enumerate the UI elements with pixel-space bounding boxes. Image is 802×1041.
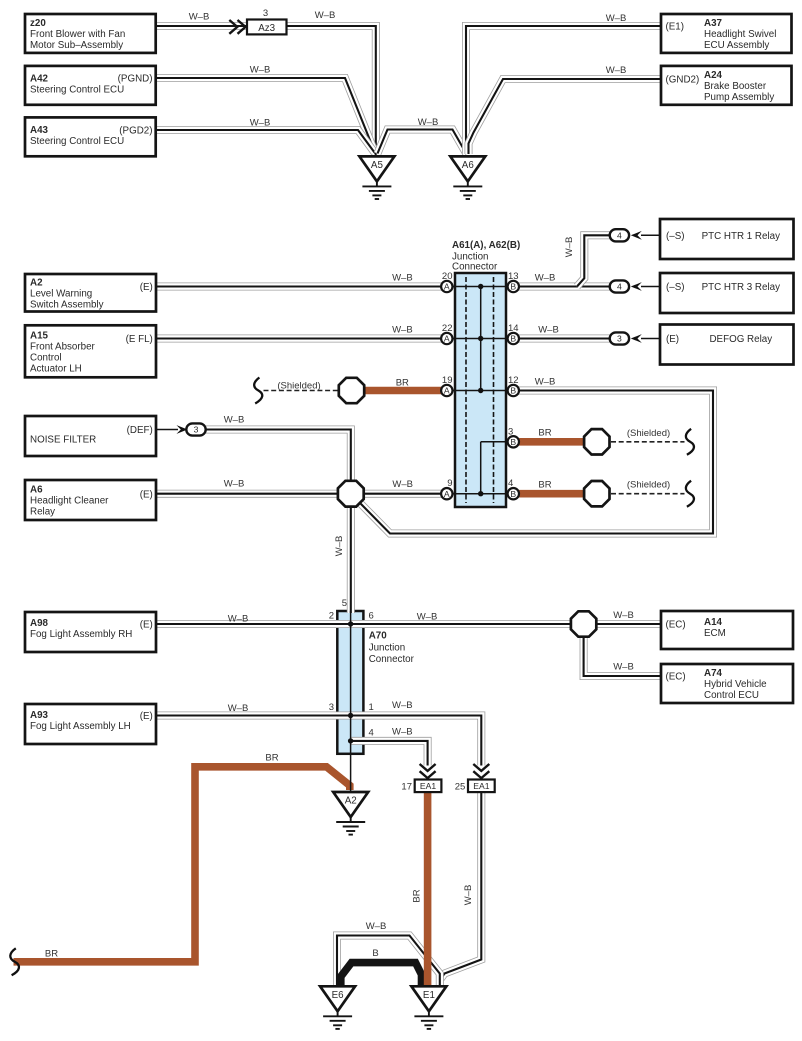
- relay PTC HTR 3: [660, 273, 794, 313]
- connector A43 Steering Control ECU: [25, 117, 156, 156]
- connector A24 Brake Booster Pump: [661, 66, 792, 105]
- A70 internal bus to ground A2: [348, 611, 353, 791]
- wire A5 to A6 link W-B: [378, 130, 467, 155]
- terminal A pin20: [441, 281, 452, 292]
- svg-text:W–B: W–B: [606, 65, 627, 76]
- svg-text:W–B: W–B: [228, 703, 249, 714]
- svg-text:(E1): (E1): [666, 22, 685, 33]
- svg-text:(GND2): (GND2): [666, 75, 700, 86]
- wire BR main wire bottom left: [14, 767, 350, 962]
- svg-text:A: A: [444, 334, 450, 344]
- wire shielded dashed line pin3: [611, 441, 685, 443]
- svg-text:(E): (E): [140, 282, 153, 293]
- label W-B A93 row: [228, 703, 249, 714]
- svg-text:3: 3: [194, 425, 199, 435]
- connector EA1 pin17: [415, 780, 442, 793]
- svg-text:W–B: W–B: [564, 237, 575, 258]
- connector A2 Level Warning Switch: [25, 274, 156, 312]
- svg-text:A: A: [444, 386, 450, 396]
- label W-B noise filter: [224, 415, 245, 426]
- wire A61 pin14 to DEFOG relay W-B: [519, 335, 611, 343]
- label pin 3: [508, 426, 513, 437]
- label pin 25: [455, 782, 466, 793]
- wire noise filter lead: [156, 429, 178, 431]
- A61 internal bus: [450, 284, 511, 497]
- terminal B pin12: [508, 385, 519, 396]
- svg-text:A98: A98: [30, 618, 49, 629]
- svg-text:W–B: W–B: [418, 117, 439, 128]
- svg-text:z20: z20: [30, 18, 46, 29]
- svg-text:E1: E1: [423, 990, 435, 1001]
- connector A37 Headlight Swivel ECU: [661, 14, 792, 53]
- connector EA1 pin25: [468, 780, 495, 793]
- svg-text:(Shielded): (Shielded): [627, 428, 670, 439]
- svg-text:A6: A6: [30, 485, 43, 496]
- svg-text:W–B: W–B: [392, 273, 413, 284]
- wire octagon to A74 W-B: [584, 637, 662, 676]
- svg-text:Steering Control ECU: Steering Control ECU: [30, 136, 124, 147]
- svg-text:Junction: Junction: [369, 643, 406, 654]
- svg-text:BR: BR: [45, 949, 58, 960]
- wire EA1-17 to E1 BR: [424, 792, 432, 989]
- svg-text:14: 14: [508, 323, 519, 334]
- svg-text:W–B: W–B: [538, 325, 559, 336]
- svg-text:Control: Control: [30, 352, 62, 363]
- wire A37 E1 to A6 W-B: [466, 26, 662, 154]
- wire DEFOG relay lead: [641, 338, 661, 340]
- svg-text:2: 2: [329, 611, 334, 622]
- label W-B pin1 row: [392, 700, 413, 711]
- wire E6 to E1 W-B: [337, 936, 440, 990]
- svg-text:(E FL): (E FL): [126, 334, 153, 345]
- wire A61 pin12 shield loop W-B: [361, 391, 714, 534]
- label BR vertical EA1-17: [412, 889, 423, 902]
- terminal B pin14: [508, 333, 519, 344]
- svg-text:Fog Light Assembly RH: Fog Light Assembly RH: [30, 629, 132, 640]
- svg-text:W–B: W–B: [392, 479, 413, 490]
- svg-text:W–B: W–B: [224, 479, 245, 490]
- svg-text:Relay: Relay: [30, 507, 55, 518]
- svg-text:Control ECU: Control ECU: [704, 690, 759, 701]
- svg-text:W–B: W–B: [535, 377, 556, 388]
- label W-B A70 to octagon: [417, 612, 438, 623]
- terminal B pin4: [508, 488, 519, 499]
- wire branch to PTC HTR 1 relay W-B: [577, 235, 610, 286]
- wire z20 to Az3 W-B: [156, 22, 247, 30]
- junction node shielded pin4: [584, 481, 609, 506]
- svg-text:Headlight Cleaner: Headlight Cleaner: [30, 496, 109, 507]
- svg-text:Motor Sub–Assembly: Motor Sub–Assembly: [30, 40, 123, 51]
- svg-text:W–B: W–B: [228, 614, 249, 625]
- svg-text:A: A: [444, 282, 450, 292]
- terminal B pin13: [508, 281, 519, 292]
- svg-text:A70: A70: [369, 631, 388, 642]
- wire A6 relay to junction octagon W-B: [156, 490, 340, 498]
- svg-text:W–B: W–B: [463, 885, 474, 906]
- svg-text:B: B: [510, 489, 516, 499]
- wire shielded dashed line left: [264, 390, 338, 392]
- wire shielded dashed line pin4: [611, 493, 685, 495]
- connector 4 PTC HTR 1: [610, 229, 629, 241]
- svg-text:19: 19: [442, 375, 453, 386]
- label W-B to A74: [613, 662, 634, 673]
- connector A6 Headlight Cleaner Relay: [25, 480, 156, 520]
- wire junction octagon down to A70 W-B: [347, 505, 355, 613]
- svg-text:13: 13: [508, 271, 519, 282]
- svg-text:B: B: [372, 948, 378, 959]
- svg-text:W–B: W–B: [250, 65, 271, 76]
- svg-text:W–B: W–B: [315, 10, 336, 21]
- svg-text:A74: A74: [704, 668, 723, 679]
- svg-text:W–B: W–B: [613, 610, 634, 621]
- label W-B A43: [250, 118, 271, 129]
- svg-text:W–B: W–B: [250, 118, 271, 129]
- label pin 14: [508, 323, 519, 334]
- label shielded pin4: [627, 480, 670, 491]
- shield break pin4: [686, 481, 694, 507]
- label W-B octagon right: [392, 479, 413, 490]
- junction node shielded left: [339, 378, 364, 403]
- label pin 3 A70: [329, 702, 334, 713]
- svg-text:BR: BR: [265, 753, 278, 764]
- label W-B pin13: [535, 273, 556, 284]
- junction connector A61(A) A62(B) body: [455, 273, 506, 507]
- wire A98 through A70 to octagon W-B: [156, 620, 570, 628]
- svg-text:Fog Light Assembly LH: Fog Light Assembly LH: [30, 721, 131, 732]
- svg-text:BR: BR: [412, 889, 423, 902]
- wire PTC HTR 3 relay lead: [641, 286, 661, 288]
- svg-text:12: 12: [508, 375, 519, 386]
- wire A61 pin3 BR shielded: [519, 438, 585, 446]
- wire PTC HTR 1 relay lead: [641, 234, 661, 236]
- label BR pin3: [538, 428, 551, 439]
- label W-B A42: [250, 65, 271, 76]
- svg-text:3: 3: [263, 8, 268, 19]
- label pin 22: [442, 323, 453, 334]
- label pin 2: [329, 611, 334, 622]
- svg-text:(PGD2): (PGD2): [119, 126, 152, 137]
- connector A15 Front Absorber: [25, 325, 156, 377]
- arrow PTC HTR 3: [631, 282, 642, 291]
- svg-text:B: B: [510, 282, 516, 292]
- svg-text:Hybrid Vehicle: Hybrid Vehicle: [704, 679, 767, 690]
- svg-text:Connector: Connector: [452, 262, 498, 273]
- svg-text:B: B: [510, 386, 516, 396]
- svg-text:(EC): (EC): [666, 620, 686, 631]
- wire B wire E6 to E1: [341, 963, 422, 989]
- terminal A pin9: [441, 488, 452, 499]
- label pin 9: [447, 478, 452, 489]
- svg-text:Brake Booster: Brake Booster: [704, 81, 767, 92]
- terminal A pin19: [441, 385, 452, 396]
- arrow noise filter: [177, 425, 188, 434]
- wire A93 through A70 pin1 to EA1-25 W-B: [156, 716, 482, 766]
- svg-text:4: 4: [369, 728, 374, 739]
- label W-B z20 left: [189, 12, 210, 23]
- svg-text:3: 3: [329, 702, 334, 713]
- wire A70 pin4 to EA1-17 W-B: [351, 741, 428, 766]
- label shielded left: [277, 381, 320, 392]
- svg-text:Connector: Connector: [369, 654, 415, 665]
- svg-text:(E): (E): [140, 711, 153, 722]
- svg-text:ECM: ECM: [704, 628, 726, 639]
- label shielded pin3: [627, 428, 670, 439]
- label pin 1: [369, 702, 374, 713]
- svg-text:(EC): (EC): [666, 672, 686, 683]
- label W-B A5-A6 link: [418, 117, 439, 128]
- connector NOISE FILTER: [25, 416, 156, 456]
- svg-text:EA1: EA1: [420, 781, 436, 791]
- svg-text:Level Warning: Level Warning: [30, 288, 92, 299]
- shield arrow EA1-25: [473, 764, 489, 778]
- wire A15 to A61 pin22 W-B: [156, 335, 442, 343]
- wire EA1-25 to E1 W-B: [441, 793, 481, 979]
- terminal A pin22: [441, 333, 452, 344]
- svg-text:A42: A42: [30, 74, 49, 85]
- arrow PTC HTR 1: [631, 231, 642, 240]
- label W-B pin4 row: [392, 727, 413, 738]
- svg-text:A61(A), A62(B): A61(A), A62(B): [452, 240, 520, 251]
- ground A6: [450, 156, 485, 199]
- svg-text:A15: A15: [30, 330, 49, 341]
- svg-text:4: 4: [617, 282, 622, 292]
- wire A42 PGND to A5 W-B: [156, 78, 376, 155]
- svg-text:Headlight Swivel: Headlight Swivel: [704, 29, 776, 40]
- svg-text:(Shielded): (Shielded): [627, 480, 670, 491]
- wire junction octagon to A61 pin9 W-B: [362, 490, 442, 498]
- ground A2: [333, 792, 368, 835]
- svg-text:5: 5: [342, 598, 347, 609]
- label pin 5: [342, 598, 347, 609]
- svg-text:(PGND): (PGND): [118, 74, 153, 85]
- svg-text:22: 22: [442, 323, 453, 334]
- label pin 13: [508, 271, 519, 282]
- relay PTC HTR 1: [660, 219, 794, 259]
- junction node ECM: [571, 611, 596, 636]
- connector 4 PTC HTR 3: [610, 280, 629, 292]
- label W-B A6 relay: [224, 479, 245, 490]
- label W-B A98 row: [228, 614, 249, 625]
- svg-text:W–B: W–B: [417, 612, 438, 623]
- svg-text:A: A: [444, 489, 450, 499]
- svg-text:A14: A14: [704, 617, 723, 628]
- label BR main horizontal: [265, 753, 278, 764]
- label W-B branch vertical: [564, 237, 575, 258]
- label BR bottom left: [45, 949, 58, 960]
- svg-text:Front Absorber: Front Absorber: [30, 341, 96, 352]
- svg-text:NOISE FILTER: NOISE FILTER: [30, 435, 96, 446]
- svg-text:Steering Control ECU: Steering Control ECU: [30, 85, 124, 96]
- label W-B vertical down: [334, 536, 345, 557]
- ground E1: [411, 986, 446, 1029]
- label pin 17: [401, 782, 412, 793]
- svg-text:W–B: W–B: [606, 13, 627, 24]
- svg-text:(E): (E): [140, 489, 153, 500]
- label 3 above Az3: [263, 8, 268, 19]
- label pin 12: [508, 375, 519, 386]
- label pin 19: [442, 375, 453, 386]
- BR wire break bottom left: [10, 948, 19, 975]
- svg-text:W–B: W–B: [334, 536, 345, 557]
- wire A24 GND2 to A6 W-B: [469, 79, 662, 154]
- svg-text:DEFOG Relay: DEFOG Relay: [709, 334, 772, 345]
- svg-text:17: 17: [401, 782, 412, 793]
- svg-text:Actuator LH: Actuator LH: [30, 363, 82, 374]
- svg-text:W–B: W–B: [366, 921, 387, 932]
- shield break pin3: [686, 429, 694, 455]
- connector Az3: [247, 20, 287, 35]
- svg-text:A2: A2: [345, 796, 357, 807]
- svg-text:(DEF): (DEF): [127, 425, 153, 436]
- svg-text:6: 6: [369, 611, 374, 622]
- connector A74 Hybrid Vehicle Control ECU: [661, 664, 793, 703]
- svg-text:W–B: W–B: [535, 273, 556, 284]
- svg-text:20: 20: [442, 271, 453, 282]
- svg-text:(Shielded): (Shielded): [277, 381, 320, 392]
- label junction connector A70 title: [369, 631, 415, 666]
- wire A43 PGD2 to A5 W-B: [156, 130, 375, 153]
- label W-B A24: [606, 65, 627, 76]
- svg-text:B: B: [510, 334, 516, 344]
- connector 3 DEFOG: [610, 332, 629, 344]
- terminal B pin3: [508, 436, 519, 447]
- svg-text:BR: BR: [396, 378, 409, 389]
- wire noise filter to junction W-B: [206, 430, 351, 483]
- svg-text:EA1: EA1: [473, 781, 489, 791]
- svg-text:1: 1: [369, 702, 374, 713]
- svg-text:W–B: W–B: [392, 727, 413, 738]
- label W-B z20 right: [315, 10, 336, 21]
- label pin 6: [369, 611, 374, 622]
- relay DEFOG: [660, 325, 794, 365]
- svg-text:Switch Assembly: Switch Assembly: [30, 299, 104, 310]
- svg-text:BR: BR: [538, 479, 551, 490]
- shield arrow EA1-17: [420, 764, 436, 778]
- svg-text:BR: BR: [538, 428, 551, 439]
- label W-B to A14: [613, 610, 634, 621]
- label pin 20: [442, 271, 453, 282]
- svg-text:A2: A2: [30, 277, 43, 288]
- svg-text:(E): (E): [666, 334, 679, 345]
- svg-text:A24: A24: [704, 70, 723, 81]
- junction connector A70 body: [337, 611, 363, 754]
- svg-text:(E): (E): [140, 620, 153, 631]
- svg-text:A37: A37: [704, 18, 723, 29]
- svg-text:W–B: W–B: [613, 662, 634, 673]
- label B bottom: [372, 948, 378, 959]
- svg-text:9: 9: [447, 478, 452, 489]
- arrow DEFOG: [631, 334, 642, 343]
- svg-text:W–B: W–B: [224, 415, 245, 426]
- wire octagon to A14 ECM W-B: [597, 620, 662, 628]
- svg-text:Front Blower with Fan: Front Blower with Fan: [30, 29, 125, 40]
- connector A98 Fog Light RH: [25, 612, 156, 652]
- wire A61 pin13 to PTC HTR 3 relay W-B: [519, 283, 611, 291]
- svg-text:PTC HTR 1 Relay: PTC HTR 1 Relay: [702, 231, 780, 242]
- label junction connector A61 A62 title: [452, 240, 520, 273]
- label BR pin4: [538, 479, 551, 490]
- svg-text:B: B: [510, 437, 516, 447]
- svg-text:4: 4: [617, 231, 622, 241]
- label W-B A2 row: [392, 273, 413, 284]
- svg-text:25: 25: [455, 782, 466, 793]
- label W-B pin12: [535, 377, 556, 388]
- label pin 4 A70: [369, 728, 374, 739]
- label W-B bottom E6: [366, 921, 387, 932]
- svg-text:A43: A43: [30, 125, 49, 136]
- ground A5: [359, 156, 394, 199]
- wire A61 pin4 BR shielded: [519, 490, 585, 498]
- svg-text:W–B: W–B: [392, 700, 413, 711]
- svg-text:Pump Assembly: Pump Assembly: [704, 92, 774, 103]
- svg-text:Az3: Az3: [258, 23, 275, 34]
- label W-B vertical EA1-25: [463, 885, 474, 906]
- connector z20 Front Blower: [25, 14, 156, 53]
- svg-text:A5: A5: [371, 160, 384, 171]
- svg-text:ECU Assembly: ECU Assembly: [704, 40, 769, 51]
- connector A93 Fog Light LH: [25, 704, 156, 744]
- svg-text:W–B: W–B: [392, 325, 413, 336]
- svg-text:A6: A6: [462, 160, 475, 171]
- connector A14 ECM: [661, 611, 793, 649]
- connector A42 Steering Control ECU: [25, 66, 156, 105]
- svg-text:3: 3: [508, 426, 513, 437]
- label pin 4: [508, 478, 513, 489]
- junction node shielded pin3: [584, 429, 609, 454]
- chevron splice on z20 wire: [229, 20, 245, 34]
- svg-text:3: 3: [617, 334, 622, 344]
- svg-text:4: 4: [508, 478, 513, 489]
- svg-text:(–S): (–S): [666, 231, 685, 242]
- svg-text:E6: E6: [332, 990, 345, 1001]
- wire A2 to A61 pin20 W-B: [156, 283, 442, 291]
- svg-text:W–B: W–B: [189, 12, 210, 23]
- label BR pin19: [396, 378, 409, 389]
- ground E6: [320, 986, 355, 1029]
- svg-text:A93: A93: [30, 710, 49, 721]
- label W-B pin14: [538, 325, 559, 336]
- connector 3 noise filter: [186, 423, 205, 435]
- label W-B A37: [606, 13, 627, 24]
- label W-B A15 row: [392, 325, 413, 336]
- svg-text:PTC HTR 3 Relay: PTC HTR 3 Relay: [702, 282, 780, 293]
- wire Az3 to ground A5 W-B: [287, 26, 376, 154]
- junction node main: [338, 481, 364, 507]
- shield break left: [254, 378, 262, 404]
- svg-text:(–S): (–S): [666, 282, 685, 293]
- wire shielded BR to A61 pin19: [363, 387, 442, 395]
